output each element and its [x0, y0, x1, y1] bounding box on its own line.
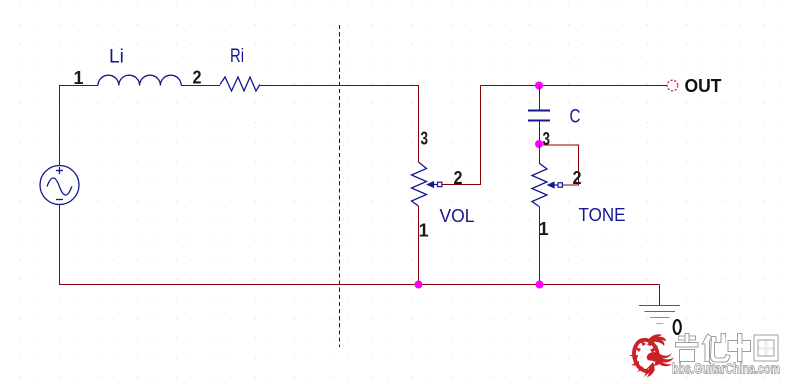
- ground symbol: [639, 306, 680, 324]
- svg-text:C: C: [570, 107, 581, 128]
- svg-text:3: 3: [421, 129, 429, 149]
- OUT terminal circle: [667, 80, 678, 91]
- capacitor C: [528, 111, 550, 121]
- wire from Ri to VOL top: [260, 86, 419, 163]
- potentiometer TONE body: [532, 163, 547, 207]
- inductor Li: [98, 75, 181, 85]
- svg-text:1: 1: [539, 219, 549, 239]
- wire TONE terminal 3 to wiper: [543, 145, 579, 185]
- watermark text chinese: [676, 334, 779, 363]
- watermark logo dragon: [629, 334, 674, 377]
- wire top-left corner from source to inductor: [60, 86, 99, 166]
- junction VOL bottom on ground rail: [415, 281, 423, 289]
- svg-text:bbs.GuitarChina.com: bbs.GuitarChina.com: [672, 362, 780, 378]
- wire VOL bottom to ground rail: [418, 206, 420, 285]
- svg-text:OUT: OUT: [685, 75, 723, 96]
- junction TONE bottom on ground rail: [536, 281, 544, 289]
- wire TONE top stub: [539, 144, 541, 164]
- junction TONE terminal 3: [535, 140, 543, 148]
- wire capacitor to TONE top: [539, 121, 541, 144]
- wire junction to capacitor: [539, 86, 541, 111]
- svg-text:Ri: Ri: [230, 46, 244, 67]
- potentiometer VOL wiper arrow: [428, 182, 442, 187]
- wire VOL wiper to top rail: [442, 86, 481, 185]
- svg-text:Li: Li: [109, 47, 124, 68]
- svg-text:1: 1: [419, 221, 429, 241]
- AC source V1: [40, 166, 79, 205]
- svg-text:TONE: TONE: [579, 204, 626, 225]
- svg-text:3: 3: [543, 129, 551, 149]
- svg-text:VOL: VOL: [440, 205, 475, 226]
- wire ground drop: [659, 285, 661, 306]
- wire between Li and Ri: [181, 85, 220, 87]
- svg-text:1: 1: [74, 68, 84, 88]
- svg-text:2: 2: [573, 168, 582, 188]
- wire source bottom to ground rail: [60, 205, 660, 285]
- wire top rail to OUT: [481, 85, 668, 87]
- wire TONE bottom to ground rail: [539, 207, 541, 286]
- node 0 ground: [674, 320, 681, 334]
- junction top rail / capacitor: [535, 82, 543, 90]
- svg-text:2: 2: [193, 68, 202, 88]
- potentiometer VOL body: [412, 162, 427, 206]
- divider dashed line: [339, 25, 341, 347]
- potentiometer TONE wiper arrow: [548, 182, 562, 187]
- resistor Ri: [220, 77, 260, 91]
